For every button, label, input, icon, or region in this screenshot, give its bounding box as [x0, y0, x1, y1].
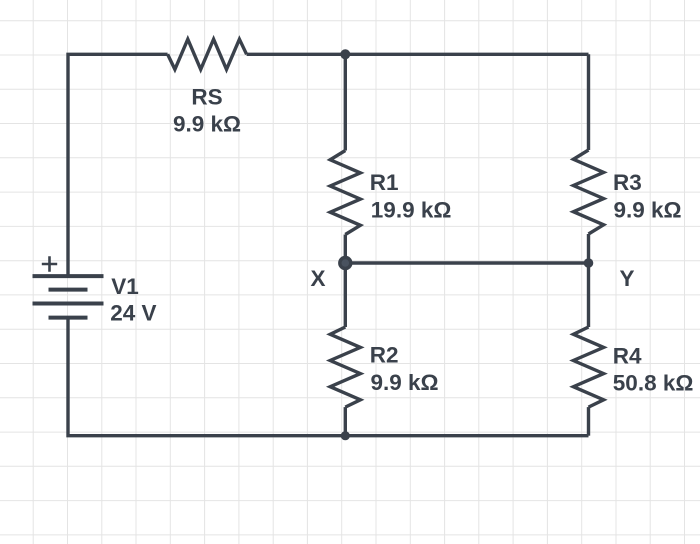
svg-text:R4: R4 [613, 344, 642, 369]
wire [587, 407, 590, 436]
wire [587, 234, 590, 263]
resistor RS [168, 39, 247, 69]
svg-text:R3: R3 [613, 170, 642, 195]
wire [344, 54, 347, 150]
wire [587, 54, 590, 150]
node Y [584, 258, 594, 268]
svg-text:9.9 kΩ: 9.9 kΩ [371, 370, 439, 395]
svg-text:50.8 kΩ: 50.8 kΩ [613, 370, 694, 395]
wire [587, 263, 590, 327]
svg-text:X: X [310, 266, 325, 291]
svg-text:R1: R1 [370, 170, 399, 195]
svg-text:V1: V1 [111, 274, 139, 299]
svg-text:19.9 kΩ: 19.9 kΩ [371, 198, 452, 223]
wire [344, 407, 347, 436]
wire [68, 318, 589, 436]
wire [247, 53, 589, 56]
wire [344, 235, 347, 264]
svg-text:9.9 kΩ: 9.9 kΩ [173, 111, 241, 136]
wire [344, 263, 347, 327]
svg-text:24 V: 24 V [110, 300, 156, 325]
battery V1 [33, 256, 104, 317]
resistor R4 [573, 327, 603, 407]
junction [340, 49, 350, 59]
svg-text:R2: R2 [370, 343, 399, 368]
resistor R1 [330, 151, 360, 235]
node X [338, 256, 352, 270]
resistor R2 [330, 327, 360, 407]
svg-text:Y: Y [619, 266, 634, 291]
junction [341, 431, 350, 440]
svg-text:9.9 kΩ: 9.9 kΩ [614, 198, 682, 223]
svg-text:RS: RS [191, 85, 222, 110]
wire [68, 54, 168, 276]
wire [345, 261, 588, 264]
resistor R3 [573, 150, 603, 234]
